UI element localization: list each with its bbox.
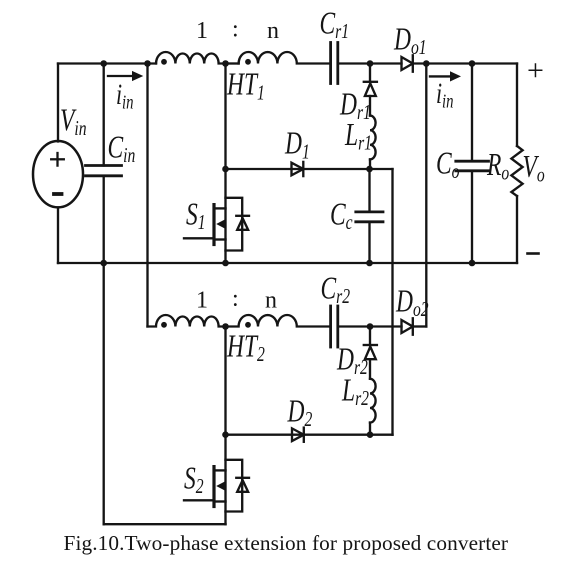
junction dot node Co bottom xyxy=(469,260,476,267)
label iin output xyxy=(436,77,454,112)
wire right branch lower xyxy=(516,196,518,263)
capacitor Cr2 xyxy=(331,306,338,347)
wire D1 rail xyxy=(226,168,393,170)
label Do2 xyxy=(395,284,428,322)
svg-text:n: n xyxy=(265,288,277,314)
svg-text:Do2: Do2 xyxy=(395,284,428,322)
junction dot node HT2 tap xyxy=(222,323,229,330)
label Cr2 xyxy=(321,271,351,309)
label iin input xyxy=(116,78,134,113)
svg-text:D1: D1 xyxy=(284,126,310,164)
capacitor Cin xyxy=(86,166,122,176)
label Dr2 xyxy=(336,342,368,380)
transformer HT2 secondary winding xyxy=(226,315,331,327)
label HT1 xyxy=(226,67,265,105)
label D1 xyxy=(284,126,310,164)
svg-text:Cr2: Cr2 xyxy=(321,271,351,309)
svg-text:Cc: Cc xyxy=(330,197,353,235)
junction dot node Cr1-Dr1 xyxy=(367,60,374,67)
transformer HT2 primary polarity dot xyxy=(161,322,167,328)
svg-text:iin: iin xyxy=(436,77,454,112)
svg-text:Vin: Vin xyxy=(60,103,87,141)
wire Dr2 upper lead xyxy=(369,327,371,346)
label Cc xyxy=(330,197,353,235)
Vin plus sign xyxy=(51,153,64,166)
label Do1 xyxy=(393,22,426,60)
svg-text:Cin: Cin xyxy=(108,130,136,168)
svg-text:S2: S2 xyxy=(184,461,204,499)
wire S2 main vertical xyxy=(224,327,226,525)
svg-text:iin: iin xyxy=(116,78,134,113)
wire Do2 to riser xyxy=(413,325,427,327)
junction dot node Do1 out xyxy=(423,60,430,67)
label Lr1 xyxy=(344,118,372,156)
diode D1 xyxy=(292,162,304,176)
wire S1 main vertical xyxy=(224,64,226,264)
junction dot node Cc bottom xyxy=(366,260,373,267)
svg-text:D2: D2 xyxy=(287,394,313,432)
wire Cin upper lead xyxy=(103,64,105,166)
svg-text:Do1: Do1 xyxy=(393,22,426,60)
diode D2 xyxy=(292,428,304,442)
transformer HT1 secondary polarity dot xyxy=(245,59,251,65)
label HT2 xyxy=(226,329,265,367)
wire between windings xyxy=(226,62,239,64)
wire node 147 drop to HT2 xyxy=(146,64,148,327)
source Vin circle xyxy=(33,141,83,207)
transistor S2 MOSFET xyxy=(184,460,249,512)
svg-text:1: 1 xyxy=(196,288,208,314)
transformer HT2 primary winding xyxy=(148,315,226,327)
label D2 xyxy=(287,394,313,432)
label S1 xyxy=(186,197,206,235)
junction dot node Lr2-D2 xyxy=(367,431,374,438)
junction dot node Cr2-Dr2 xyxy=(367,323,374,330)
svg-text:+: + xyxy=(527,54,544,87)
label Dr1 xyxy=(339,87,371,125)
svg-text:Co: Co xyxy=(436,146,459,184)
wire Do2 output riser x426 xyxy=(425,64,427,327)
wire Do1 to right corner xyxy=(413,62,517,64)
junction dot node 104-63 xyxy=(100,60,107,67)
junction dot node Lr1-Cc xyxy=(366,166,373,173)
wire bottom rail xyxy=(58,262,517,264)
inductor Lr2 xyxy=(370,379,376,423)
transformer HT1 secondary winding xyxy=(239,52,330,64)
wire Lr2 to node xyxy=(369,423,371,435)
junction dot node D2-S2 xyxy=(222,431,229,438)
wire Co upper lead xyxy=(471,64,473,162)
junction dot node HT1 tap xyxy=(222,60,229,67)
label Lr2 xyxy=(341,373,369,411)
wire Dr2 to Lr2 xyxy=(369,359,371,379)
svg-text:Vo: Vo xyxy=(523,150,545,188)
junction dot node S1 source xyxy=(222,260,229,267)
svg-text:n: n xyxy=(267,18,279,44)
wire Cr2 to Do2 xyxy=(338,325,402,327)
wire Cc lower lead xyxy=(368,222,370,263)
svg-text::: : xyxy=(232,17,239,43)
current arrow iin output xyxy=(430,71,461,81)
svg-text:Cr1: Cr1 xyxy=(320,6,350,44)
Vin minus sign xyxy=(54,192,62,196)
label Co xyxy=(436,146,459,184)
wire Cin lower lead and left drop xyxy=(103,176,105,524)
transistor S1 MOSFET xyxy=(184,198,249,251)
wire Dr1 to Lr1 xyxy=(369,96,371,116)
junction dot node D1-S1 xyxy=(222,166,229,173)
transformer HT2 secondary polarity dot xyxy=(245,322,251,328)
transformer HT1 primary winding xyxy=(156,52,226,64)
svg-text:HT1: HT1 xyxy=(226,67,265,105)
wire Lr1 to node xyxy=(369,159,371,169)
wire Co lower lead xyxy=(471,171,473,263)
capacitor Cc xyxy=(356,212,383,222)
wire Vin bottom lead xyxy=(57,208,59,264)
svg-text:HT2: HT2 xyxy=(226,329,265,367)
wire Cr1 to Do1 xyxy=(338,62,402,64)
wire Cc upper lead xyxy=(368,169,370,212)
svg-text:Ro: Ro xyxy=(486,148,509,186)
svg-text:S1: S1 xyxy=(186,197,206,235)
label Vo xyxy=(523,150,545,188)
wire bottom return xyxy=(104,523,226,525)
diode Do1 xyxy=(402,55,413,71)
svg-text:1: 1 xyxy=(196,18,208,44)
svg-text:Fig.10.Two-phase extension for: Fig.10.Two-phase extension for proposed … xyxy=(64,531,509,555)
diode Dr1 xyxy=(364,82,377,96)
svg-text::: : xyxy=(232,286,239,312)
junction dot node Cin bottom xyxy=(100,260,107,267)
label minus output xyxy=(528,252,539,255)
wire clamp link x392 xyxy=(391,169,393,435)
label Vin xyxy=(60,103,87,141)
label S2 xyxy=(184,461,204,499)
wire right branch upper xyxy=(516,64,518,147)
capacitor Cr1 xyxy=(331,43,338,84)
label Cin xyxy=(108,130,136,168)
label Ro xyxy=(486,148,509,186)
junction dot node 147-63 xyxy=(144,60,151,67)
transformer HT1 primary polarity dot xyxy=(161,59,167,65)
diode Do2 xyxy=(402,318,413,334)
diode Dr2 xyxy=(364,345,377,359)
wire Dr1 upper lead xyxy=(369,64,371,82)
inductor Lr1 xyxy=(370,116,376,160)
wire top rail segment left xyxy=(58,62,156,64)
resistor Ro xyxy=(511,146,522,196)
capacitor Co xyxy=(456,161,489,171)
current arrow iin input xyxy=(108,71,143,81)
junction dot node Co top xyxy=(469,60,476,67)
wire D2 rail xyxy=(226,434,393,436)
label Cr1 xyxy=(320,6,350,44)
wire Vin top lead xyxy=(57,64,59,142)
